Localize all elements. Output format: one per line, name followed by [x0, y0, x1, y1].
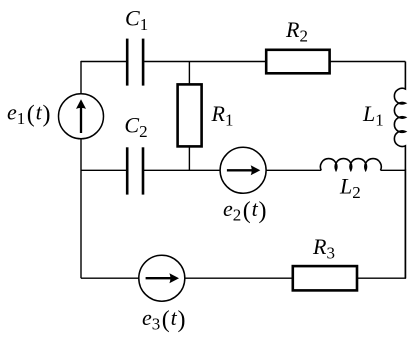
- wire e3 to R3: [185, 277, 293, 279]
- wire e2 to L2: [266, 169, 321, 171]
- inductor L1: [394, 62, 405, 279]
- svg-text:e3(t): e3(t): [142, 305, 185, 334]
- resistor R2: [266, 50, 329, 74]
- source e1: [59, 94, 104, 139]
- wire bottom left (left rail to e3): [81, 277, 139, 279]
- wire R3 to bottom-right corner: [357, 169, 405, 278]
- svg-text:e2(t): e2(t): [223, 196, 266, 225]
- svg-text:e1(t): e1(t): [7, 99, 50, 128]
- wire C1 to R1 junction to R2: [144, 61, 266, 63]
- wire C2 to e2: [144, 169, 220, 171]
- wire R1 bottom to middle wire: [188, 146, 190, 170]
- inductor L2: [320, 159, 381, 171]
- wire L2 to right rail: [381, 169, 406, 171]
- source e2: [220, 147, 266, 193]
- resistor R3: [293, 266, 357, 290]
- capacitor C1: [127, 39, 143, 86]
- node junction R1-top wire: [188, 62, 190, 85]
- resistor R1: [178, 84, 202, 146]
- wire left vertical below e1: [80, 139, 82, 278]
- source e3: [139, 255, 185, 301]
- wire left vertical above e1: [80, 61, 82, 94]
- capacitor C2: [127, 147, 143, 194]
- wire middle left (left rail to C2): [81, 169, 126, 171]
- wire R2 to top-right corner: [330, 61, 406, 63]
- wire top-left horizontal (node A to C1): [81, 61, 126, 63]
